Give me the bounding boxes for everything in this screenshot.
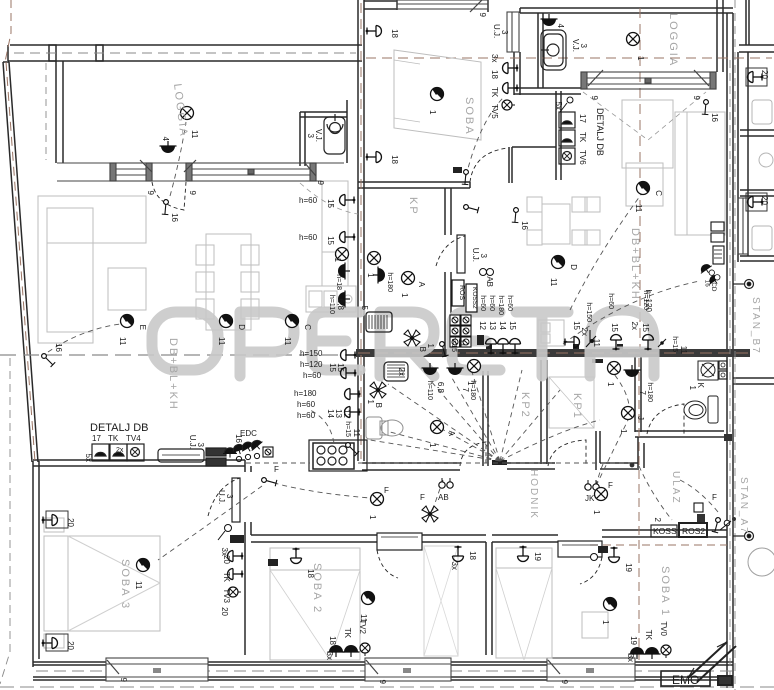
wall kp1 left vertical <box>541 360 547 464</box>
wall below vj horizontal <box>514 88 581 94</box>
centerline right outer dashed <box>734 0 736 690</box>
door arc bath right <box>647 404 684 434</box>
svg-text:19: 19 <box>533 552 542 561</box>
centerline bottom <box>0 686 774 688</box>
svg-text:9: 9 <box>119 678 128 683</box>
door arc soba mid <box>470 148 508 182</box>
svg-text:14: 14 <box>498 321 507 330</box>
window right apt band 2 <box>738 198 748 254</box>
centerline top-left vertical <box>5 0 11 62</box>
svg-text:9: 9 <box>692 96 701 101</box>
shower kp1 <box>549 377 594 428</box>
socket h=15 mid <box>434 336 466 359</box>
wall vj left apt <box>300 100 347 166</box>
svg-text:h=180: h=180 <box>497 295 504 315</box>
label uj3 kp door <box>471 248 488 262</box>
lamp living C <box>283 314 312 345</box>
svg-text:KP2: KP2 <box>519 392 531 419</box>
wall soba right vertical <box>514 52 520 95</box>
socket grid boxes kitchen <box>450 315 471 347</box>
svg-text:13: 13 <box>334 409 343 418</box>
svg-text:1: 1 <box>466 381 475 386</box>
dome loggia left <box>160 137 177 153</box>
labels kitchen left h-block1 <box>300 349 356 380</box>
svg-text:2x: 2x <box>630 322 639 330</box>
centerline ulaz vertical <box>638 358 640 660</box>
sofa living room <box>38 196 146 343</box>
svg-text:3: 3 <box>306 134 315 139</box>
svg-text:15: 15 <box>641 323 650 332</box>
lamp soba3 <box>134 558 150 589</box>
washer label <box>688 383 705 391</box>
svg-text:DETALJ DB: DETALJ DB <box>595 108 605 156</box>
lamp living D <box>217 314 246 345</box>
svg-text:KP: KP <box>407 197 419 216</box>
switch 5x circle mid <box>560 97 573 112</box>
wire ulaz koss <box>639 466 672 520</box>
socket h60 row2 <box>299 232 355 246</box>
svg-text:TV3: TV3 <box>222 588 231 603</box>
svg-text:1: 1 <box>333 258 342 263</box>
wall bath bottom <box>635 431 724 437</box>
svg-text:4: 4 <box>556 24 565 29</box>
wire switch soba3 <box>265 480 370 498</box>
svg-text:11: 11 <box>190 130 199 139</box>
svg-text:SOBA 2: SOBA 2 <box>311 563 323 614</box>
bed soba2 <box>270 548 360 660</box>
svg-text:1: 1 <box>366 400 375 405</box>
svg-text:17: 17 <box>92 434 101 443</box>
svg-text:15: 15 <box>326 236 335 245</box>
svg-text:ROS: ROS <box>458 285 465 301</box>
svg-text:U.J.: U.J. <box>471 248 480 262</box>
dome kp2 7 <box>447 363 477 400</box>
kp door leaf mid <box>436 235 465 273</box>
svg-text:DB+BL+KH: DB+BL+KH <box>167 338 179 411</box>
svg-text:1: 1 <box>368 515 377 520</box>
wall soba2 top <box>251 535 486 542</box>
svg-text:17: 17 <box>578 114 587 123</box>
svg-text:3x: 3x <box>626 654 635 662</box>
wall ulaz left stub <box>638 437 644 468</box>
lamp db C <box>634 181 663 212</box>
washer bath right <box>698 361 718 380</box>
label 9 top window <box>478 13 487 18</box>
svg-text:3x: 3x <box>325 652 334 660</box>
3x labels bedroom clusters <box>220 562 459 617</box>
dome kitchenleft h180 <box>335 263 350 291</box>
bed soba3 <box>44 518 160 648</box>
svg-text:16: 16 <box>704 280 711 287</box>
wall loggia right top <box>520 8 733 13</box>
counter row hall: hatched boxes <box>206 448 226 466</box>
svg-text:15: 15 <box>328 363 337 372</box>
junction small box soba3 door <box>218 525 244 544</box>
svg-text:16: 16 <box>520 221 529 230</box>
svg-text:1: 1 <box>601 620 610 625</box>
svg-text:TK: TK <box>222 572 231 583</box>
svg-text:1: 1 <box>688 386 697 391</box>
svg-text:EDC: EDC <box>240 429 257 438</box>
wall kitchen mid vertical <box>556 91 561 180</box>
lamp soba1 <box>601 597 617 625</box>
switch F hall <box>261 465 279 491</box>
svg-text:3: 3 <box>196 443 205 448</box>
watermark OPERETA <box>152 310 654 376</box>
svg-text:9: 9 <box>316 181 325 186</box>
svg-text:HODNIK: HODNIK <box>528 469 539 520</box>
kitchen counter left apt <box>306 181 356 312</box>
svg-text:TK: TK <box>578 132 587 143</box>
label uj3 soba3 door <box>217 490 234 504</box>
dome kitchenleft 68 <box>328 291 350 315</box>
svg-text:12: 12 <box>478 321 487 330</box>
svg-text:1: 1 <box>592 510 601 515</box>
svg-text:13: 13 <box>488 321 497 330</box>
label vj3 left <box>306 129 323 142</box>
svg-text:20: 20 <box>66 641 75 650</box>
centerline left lower <box>0 358 10 684</box>
socket 19 bedroom2 top <box>518 546 543 562</box>
wall right apt fragments <box>717 0 774 384</box>
wall kitchen thick <box>356 349 750 357</box>
svg-text:h=15: h=15 <box>671 336 678 352</box>
svg-text:16: 16 <box>54 343 63 352</box>
switch 16 kp mid <box>453 167 475 188</box>
centerline loggia left <box>45 63 47 160</box>
svg-text:F: F <box>384 486 389 495</box>
wall top-left apartment <box>8 45 362 61</box>
svg-text:h=60: h=60 <box>488 295 495 311</box>
window top band middle <box>397 0 488 12</box>
svg-text:C: C <box>654 190 663 196</box>
stacked boxes right wall <box>711 222 724 264</box>
svg-text:J: J <box>636 416 645 420</box>
svg-text:C: C <box>303 324 312 330</box>
wire edc up <box>310 410 334 443</box>
svg-text:h=150: h=150 <box>300 349 323 358</box>
svg-text:11: 11 <box>457 339 466 348</box>
svg-text:9: 9 <box>188 191 197 196</box>
lamp F hodnik left <box>368 486 389 520</box>
svg-text:A: A <box>417 282 426 288</box>
detalj db left text <box>84 422 148 462</box>
switch 16 loggia right <box>696 99 719 123</box>
svg-text:JK: JK <box>585 494 595 503</box>
centerline right wall <box>729 60 731 686</box>
washbasin kp2 room <box>384 362 408 381</box>
svg-text:SOBA 3: SOBA 3 <box>119 559 131 610</box>
socket 20 right apt 2 <box>746 193 767 211</box>
lamp A kp2 <box>428 421 456 449</box>
svg-text:KP1: KP1 <box>571 393 583 420</box>
wall top window jamb <box>364 0 488 12</box>
lamp living E <box>118 314 147 345</box>
svg-text:20: 20 <box>760 196 769 205</box>
svg-text:18: 18 <box>468 551 477 560</box>
sockets 3x18 tk tv5 soba right <box>490 54 518 119</box>
socket h60 row1 <box>299 195 355 209</box>
sockets 15-12 kitchen mid <box>477 321 521 354</box>
coffee table <box>108 268 146 310</box>
svg-text:1: 1 <box>428 443 437 448</box>
svg-text:TV0: TV0 <box>659 621 668 636</box>
pin stan_b7 <box>733 280 754 289</box>
switch kp mid2 <box>463 199 481 217</box>
sink vj left apt <box>324 114 345 154</box>
svg-text:3: 3 <box>479 254 488 259</box>
svg-text:3x: 3x <box>450 562 459 570</box>
window bottom band 3 <box>547 658 635 681</box>
toilet bath right <box>684 396 718 423</box>
svg-text:CD: CD <box>710 282 717 292</box>
svg-text:h=180: h=180 <box>294 389 317 398</box>
svg-text:11: 11 <box>118 337 127 346</box>
svg-text:ROS2: ROS2 <box>682 526 705 536</box>
svg-text:5x: 5x <box>554 102 563 110</box>
column circle right <box>748 548 774 576</box>
wall soba1 top <box>602 530 727 537</box>
svg-text:9: 9 <box>560 680 569 685</box>
window vertical soba <box>507 12 519 52</box>
svg-text:h=180: h=180 <box>646 382 653 402</box>
socket 18 soba bottom <box>366 152 399 165</box>
lamp db D <box>549 255 578 286</box>
svg-text:11: 11 <box>634 204 643 213</box>
svg-text:h=60: h=60 <box>299 233 318 242</box>
svg-text:h=120: h=120 <box>644 290 653 313</box>
switch living 16 <box>42 343 63 367</box>
switch 16 dining <box>506 207 529 231</box>
svg-text:h=15: h=15 <box>450 336 457 352</box>
svg-text:9: 9 <box>478 13 487 18</box>
centerline soba1 former wall <box>590 544 727 546</box>
detalj db mid boxes <box>559 112 575 164</box>
wall party vertical <box>358 0 364 461</box>
koss box <box>651 523 707 537</box>
svg-text:U.J.: U.J. <box>492 24 501 38</box>
svg-text:16: 16 <box>710 113 719 122</box>
svg-text:D: D <box>237 324 246 330</box>
hall labels <box>188 429 257 449</box>
socket 19 door right <box>591 546 634 573</box>
centerline bottom wall <box>36 670 733 672</box>
svg-text:19: 19 <box>629 636 638 645</box>
dome vj mid 4 <box>541 14 566 29</box>
svg-text:15: 15 <box>508 321 517 330</box>
svg-text:AB: AB <box>485 276 494 287</box>
socket 20 soba3 bottom <box>42 634 75 651</box>
counter row hall: shoe cabinet <box>158 449 204 462</box>
svg-text:11: 11 <box>283 337 292 346</box>
svg-text:1: 1 <box>636 56 645 61</box>
svg-text:1: 1 <box>426 344 435 349</box>
detalj db left boxes <box>92 444 144 461</box>
wire loggia switch <box>170 122 186 196</box>
fridge kitchen <box>360 306 392 332</box>
junction AB kitchen <box>480 269 495 288</box>
svg-text:h=60: h=60 <box>303 371 322 380</box>
lamp bath right small <box>606 362 621 388</box>
svg-text:h=180: h=180 <box>386 272 393 292</box>
lamp kp left 1 <box>366 252 381 279</box>
socket 18 soba2 top <box>453 546 478 562</box>
lamp J bath <box>619 407 645 435</box>
wire ab to fan <box>432 480 443 512</box>
centerline slant wall <box>6 62 35 462</box>
svg-text:h=150: h=150 <box>585 302 592 322</box>
svg-text:K: K <box>696 383 705 389</box>
svg-text:EMO: EMO <box>672 673 699 687</box>
junction 16 cd right <box>698 261 723 292</box>
socket 20 soba3 top <box>42 511 75 528</box>
svg-text:15: 15 <box>572 321 581 330</box>
switch loggia left <box>156 199 179 223</box>
wall bedroom2 top <box>492 535 558 542</box>
svg-text:h=15: h=15 <box>344 421 351 437</box>
svg-text:SOBA: SOBA <box>463 97 475 136</box>
wall bath left vertical <box>635 356 641 432</box>
svg-text:h=110: h=110 <box>328 295 335 314</box>
toilet kp2 room <box>366 417 403 439</box>
svg-text:18: 18 <box>490 70 499 79</box>
wire soba3 lamp <box>158 486 262 560</box>
emo box <box>661 671 710 686</box>
svg-text:F: F <box>274 465 279 474</box>
dining set left <box>196 234 259 330</box>
svg-text:20: 20 <box>66 518 75 527</box>
wall stub top <box>49 45 56 61</box>
window tick marks loggia <box>140 160 316 176</box>
lamp loggia right <box>627 33 646 62</box>
window bottom band 2 <box>365 658 451 681</box>
wire loggia left swing <box>300 183 358 214</box>
svg-text:6,8: 6,8 <box>336 299 345 311</box>
svg-text:U.J.: U.J. <box>217 490 226 504</box>
svg-text:F: F <box>420 493 425 502</box>
ros koss2 boxes <box>452 280 478 312</box>
svg-text:18: 18 <box>390 29 399 38</box>
svg-text:AB: AB <box>438 493 449 502</box>
sockets 3x19 tk tv0 soba1 <box>626 621 671 662</box>
svg-text:h=60: h=60 <box>607 293 614 309</box>
door arc kp2 <box>460 442 486 466</box>
lamp kitchenleft <box>333 248 349 263</box>
svg-text:h=60: h=60 <box>299 196 318 205</box>
svg-text:B: B <box>418 347 427 352</box>
junction dots wall C <box>486 344 623 349</box>
svg-text:11: 11 <box>549 278 558 287</box>
svg-text:18: 18 <box>390 155 399 164</box>
bed soba top middle <box>394 50 481 140</box>
svg-text:E: E <box>138 325 147 330</box>
svg-text:ULAZ: ULAZ <box>670 471 681 505</box>
socket 18 soba top <box>366 26 399 39</box>
svg-text:15: 15 <box>610 323 619 332</box>
svg-text:11: 11 <box>134 581 143 590</box>
wall loggia left inner <box>56 61 63 163</box>
furniture db right sofa <box>622 100 725 235</box>
wire loggia right swing <box>583 92 706 140</box>
door box bedroom2 <box>558 541 602 584</box>
junction AB hodnik <box>438 478 453 502</box>
sockets 3x20 tk tv3 soba3 <box>220 548 243 604</box>
window loggia band left seg1 <box>57 163 344 181</box>
svg-text:20: 20 <box>760 70 769 79</box>
fan hodnik <box>420 493 438 522</box>
soba3 door leaf <box>208 478 240 522</box>
svg-text:3: 3 <box>579 44 588 49</box>
svg-text:7: 7 <box>638 391 647 396</box>
svg-text:h=60: h=60 <box>297 411 316 420</box>
dome kp2 68 <box>422 363 446 400</box>
svg-text:2x: 2x <box>116 447 124 454</box>
svg-text:4: 4 <box>161 137 170 142</box>
svg-text:7: 7 <box>461 388 470 393</box>
dark dot right wall <box>630 434 732 467</box>
svg-text:TV6: TV6 <box>578 150 587 165</box>
svg-text:9: 9 <box>378 680 387 685</box>
junction JK <box>585 480 599 503</box>
centerline loggia right vertical <box>639 8 641 350</box>
svg-text:LOGGIA: LOGGIA <box>667 13 679 67</box>
sockets 3x18 tk tv2 soba2 <box>325 619 370 660</box>
svg-text:TV2: TV2 <box>358 619 367 634</box>
svg-text:16: 16 <box>170 213 179 222</box>
svg-text:15: 15 <box>326 199 335 208</box>
svg-text:2x: 2x <box>397 368 406 376</box>
window loggia right band <box>581 70 716 89</box>
svg-text:6,8: 6,8 <box>436 382 445 394</box>
svg-text:STAN_A7: STAN_A7 <box>738 477 749 535</box>
svg-text:KOSS: KOSS <box>653 526 677 536</box>
svg-text:3x: 3x <box>490 54 499 62</box>
svg-text:h=110: h=110 <box>426 381 433 400</box>
window loggia band left seg2 <box>186 163 316 181</box>
svg-text:1: 1 <box>428 110 437 115</box>
svg-text:TK: TK <box>644 630 653 641</box>
svg-text:1: 1 <box>400 293 409 298</box>
svg-text:3: 3 <box>225 494 234 499</box>
door arc kp1 <box>548 440 586 466</box>
wire corridor main <box>246 462 635 464</box>
svg-text:KOSS2: KOSS2 <box>471 287 478 309</box>
door leaf hodnik dark <box>492 460 507 465</box>
svg-text:20: 20 <box>220 607 229 616</box>
wall right outer vertical <box>727 13 733 688</box>
svg-text:h=60: h=60 <box>506 295 513 311</box>
lamp kp2 1 <box>466 360 481 387</box>
pin ulaz <box>733 532 754 541</box>
detalj db mid labels <box>554 102 605 166</box>
svg-text:h=60: h=60 <box>479 295 486 311</box>
wall hodnik top segments <box>362 431 639 470</box>
centerline party wall <box>360 3 362 459</box>
centerline kitchen wall <box>358 352 750 354</box>
kitchen sink counter middle <box>538 320 564 346</box>
wall living/soba3 horizontal <box>33 460 251 472</box>
sink vj middle apt <box>541 30 566 70</box>
labels kitchen left h-block2 <box>294 389 360 421</box>
hall dome sockets row <box>223 437 273 461</box>
wall soba top middle <box>358 147 556 188</box>
wire fan hodnik to kitchen <box>370 370 560 461</box>
lamp kp A2 <box>400 272 426 299</box>
svg-text:h=60: h=60 <box>297 400 316 409</box>
svg-text:h=18: h=18 <box>335 274 342 290</box>
lamp F hodnik right <box>592 481 613 515</box>
centerline section living <box>0 354 356 356</box>
